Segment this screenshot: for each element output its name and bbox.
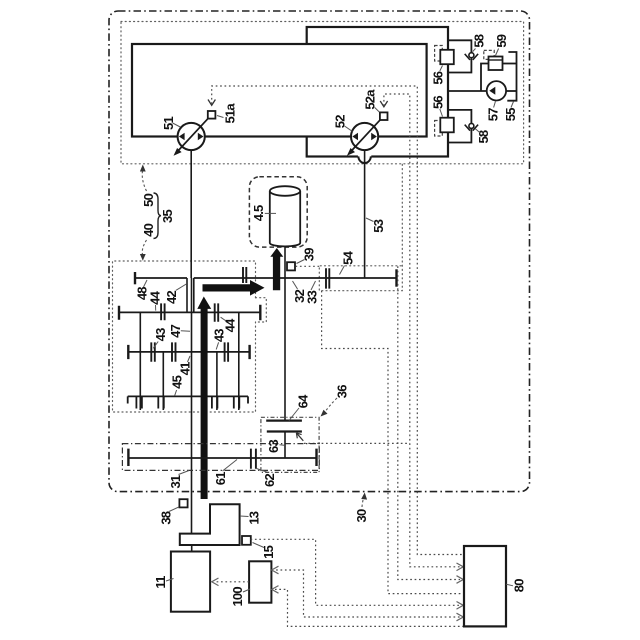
gear 54 ticks bbox=[326, 268, 329, 288]
shaft 33 right end cap bbox=[395, 269, 397, 286]
inner hydraulic circuit rectangle bbox=[132, 44, 427, 137]
sensor square 15 bbox=[242, 536, 251, 545]
svg-text:56: 56 bbox=[431, 96, 446, 109]
dash-dot box around shaft 61 bbox=[122, 444, 319, 471]
sensor square 38 bbox=[179, 499, 187, 507]
svg-text:35: 35 bbox=[160, 210, 175, 223]
svg-text:31: 31 bbox=[168, 475, 183, 488]
svg-text:39: 39 bbox=[301, 248, 316, 261]
tank bracket 55 bbox=[507, 52, 516, 101]
svg-text:40: 40 bbox=[141, 223, 156, 236]
bracket 42 vertical bbox=[186, 278, 188, 312]
svg-text:58: 58 bbox=[476, 130, 491, 143]
pump 52 shaft down through hop in outer line bbox=[358, 154, 371, 159]
svg-text:30: 30 bbox=[354, 509, 369, 522]
thick power-flow arrow up to cylinder bbox=[270, 248, 283, 290]
svg-text:52a: 52a bbox=[363, 89, 378, 110]
svg-text:33: 33 bbox=[304, 290, 319, 303]
pump 52 variable-displacement diagonal arrow bbox=[350, 120, 380, 153]
sensor square 39 bbox=[287, 262, 295, 270]
thick power-flow arrow up from engine bbox=[197, 297, 211, 500]
svg-text:59: 59 bbox=[494, 34, 509, 47]
svg-text:64: 64 bbox=[296, 394, 311, 408]
dotted box 40 (gear unit) bbox=[113, 261, 256, 412]
pump 52 bbox=[351, 123, 378, 150]
svg-text:50: 50 bbox=[141, 193, 156, 206]
arrow into 51a bbox=[208, 100, 215, 106]
signal line 100 to engine 11 bbox=[215, 581, 249, 583]
gear ticks on shaft 32 (x=244) bbox=[243, 267, 246, 283]
H4 gear pair 43 left bbox=[151, 342, 155, 361]
svg-text:56: 56 bbox=[431, 71, 446, 84]
relief valve 59 left line bbox=[481, 64, 489, 92]
shaft 32 vertical bbox=[284, 246, 286, 421]
row4 clutch rail bbox=[128, 396, 248, 403]
outer dash-dot boundary box 30 bbox=[109, 11, 530, 492]
pump 51 shaft down bbox=[190, 150, 192, 278]
engine box 11 bbox=[171, 552, 210, 612]
H4 gear pair 47 bbox=[172, 342, 176, 361]
svg-text:38: 38 bbox=[159, 511, 174, 524]
damper housing 13 bbox=[180, 504, 240, 545]
svg-text:80: 80 bbox=[511, 579, 526, 592]
relief valve 59 right line bbox=[503, 63, 517, 65]
H3 gear pair right (44) bbox=[215, 303, 219, 321]
thick power-flow arrow horizontal bbox=[203, 280, 265, 296]
arrow into 52a bbox=[380, 101, 387, 107]
gear train: shaft 48 (H1) bbox=[135, 277, 187, 279]
svg-text:11: 11 bbox=[153, 576, 168, 589]
svg-text:47: 47 bbox=[168, 324, 183, 337]
control square 51a bbox=[208, 111, 216, 119]
valve 56 top box bbox=[440, 50, 454, 64]
svg-text:43: 43 bbox=[153, 328, 168, 341]
charge line to pump 57 bbox=[448, 90, 487, 92]
gear 62 ticks bbox=[251, 449, 256, 469]
dotted sub-box around gear 54 bbox=[319, 164, 402, 290]
gear 64 line bbox=[266, 420, 302, 422]
dashed control line to 52a bbox=[384, 94, 460, 567]
controller box 80 bbox=[464, 546, 506, 626]
relief valve 59: dashed shadow box bbox=[484, 50, 494, 59]
signal line from 80 to 100 (1) bbox=[275, 570, 464, 617]
svg-text:36: 36 bbox=[335, 385, 350, 398]
charge circuit: bypass with check valve 58 (top) bbox=[448, 40, 471, 72]
relief valve 59 box bbox=[489, 57, 503, 71]
control square 52a bbox=[380, 112, 388, 120]
svg-text:44: 44 bbox=[148, 290, 163, 304]
svg-text:57: 57 bbox=[485, 108, 500, 121]
svg-text:58: 58 bbox=[471, 34, 486, 47]
svg-text:45: 45 bbox=[170, 375, 185, 388]
svg-text:41: 41 bbox=[177, 362, 192, 375]
svg-text:42: 42 bbox=[164, 291, 179, 304]
ECU box 100 bbox=[249, 561, 271, 602]
svg-text:100: 100 bbox=[230, 587, 245, 607]
svg-text:4.5: 4.5 bbox=[251, 205, 266, 221]
brace and label 35 bbox=[154, 193, 162, 239]
svg-text:63: 63 bbox=[266, 440, 281, 453]
box 40 right-edge bump bbox=[256, 298, 267, 322]
valve 56 top: dashed shadow box bbox=[435, 46, 443, 62]
bypass with check valve 58 (bottom) bbox=[448, 110, 471, 143]
pump 57 right line bbox=[506, 90, 517, 92]
shaft 61 bbox=[128, 457, 316, 459]
dashed box around cylinder 4.5 bbox=[249, 177, 307, 247]
clutch prongs bbox=[136, 396, 239, 408]
pump 51 variable-displacement diagonal arrow bbox=[177, 118, 209, 152]
svg-text:61: 61 bbox=[213, 472, 228, 485]
svg-text:13: 13 bbox=[247, 511, 262, 524]
svg-text:55: 55 bbox=[503, 108, 518, 121]
H4 shaft (41) bbox=[128, 351, 249, 353]
svg-text:62: 62 bbox=[262, 474, 277, 487]
verticals H3-H4 bbox=[140, 312, 239, 352]
H3 gear pair left (44) bbox=[161, 303, 165, 320]
valve 56 bottom: dashed shadow box bbox=[435, 121, 443, 137]
gear 63 line bbox=[267, 430, 302, 432]
main input shaft vertical bbox=[191, 278, 193, 534]
signal line from 80 to 100 (2) bbox=[275, 589, 464, 626]
signal line from 39 bbox=[296, 266, 461, 579]
dotted box 50 (hydrostatic unit) bbox=[121, 22, 524, 164]
dashed control line to 51a bbox=[212, 86, 464, 555]
staircase signal line (near 36) bbox=[322, 291, 464, 594]
valve 56 bottom box bbox=[440, 118, 454, 133]
svg-text:51a: 51a bbox=[222, 103, 237, 124]
shaft 32/33 horizontal bbox=[194, 277, 397, 279]
cylinder 4.5 (oil reservoir) bbox=[270, 191, 300, 246]
H3 shaft bbox=[119, 311, 260, 313]
dotted box 36 bbox=[261, 417, 319, 472]
vertical from 63 down to shaft 61 bbox=[284, 432, 286, 459]
H4 gear pair 43 right bbox=[225, 342, 229, 361]
charge pump 57 bbox=[487, 81, 506, 100]
outer hydraulic circuit rectangle bbox=[307, 27, 448, 157]
signal line from 15 to controller 80 bbox=[251, 539, 461, 605]
svg-text:54: 54 bbox=[340, 250, 355, 264]
pump 51 bbox=[178, 123, 205, 150]
verticals H4-row4 bbox=[140, 352, 239, 410]
